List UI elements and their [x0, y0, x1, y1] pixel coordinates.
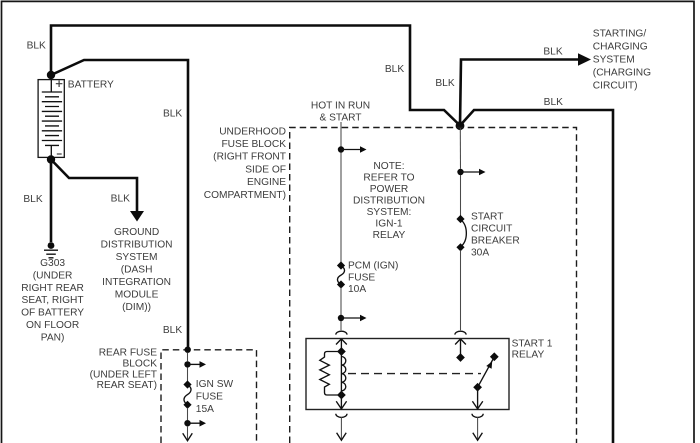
svg-text:IGN SW: IGN SW: [196, 379, 234, 390]
svg-text:INTEGRATION: INTEGRATION: [102, 277, 171, 288]
svg-text:SEAT, RIGHT: SEAT, RIGHT: [22, 295, 84, 306]
svg-text:RELAY: RELAY: [512, 350, 545, 361]
svg-text:REAR FUSE: REAR FUSE: [99, 347, 158, 358]
svg-text:(UNDER: (UNDER: [33, 270, 73, 281]
svg-text:SYSTEM: SYSTEM: [116, 252, 158, 263]
svg-text:RELAY: RELAY: [373, 230, 406, 241]
svg-text:G303: G303: [40, 258, 65, 269]
svg-text:UNDERHOOD: UNDERHOOD: [219, 126, 286, 137]
svg-text:IGN-1: IGN-1: [375, 219, 403, 230]
svg-text:GROUND: GROUND: [114, 227, 159, 238]
svg-text:SYSTEM: SYSTEM: [593, 54, 635, 65]
svg-text:FUSE: FUSE: [196, 391, 223, 402]
svg-text:(DIM)): (DIM)): [122, 302, 151, 313]
svg-text:ENGINE: ENGINE: [247, 177, 286, 188]
svg-text:DISTRIBUTION: DISTRIBUTION: [353, 195, 425, 206]
svg-text:CIRCUIT: CIRCUIT: [471, 223, 512, 234]
svg-text:MODULE: MODULE: [115, 290, 159, 301]
svg-text:BLK: BLK: [111, 194, 130, 205]
svg-text:COMPARTMENT): COMPARTMENT): [204, 190, 286, 201]
svg-text:BREAKER: BREAKER: [471, 235, 520, 246]
svg-text:HOT IN RUN: HOT IN RUN: [311, 100, 370, 111]
svg-text:SYSTEM:: SYSTEM:: [367, 207, 412, 218]
svg-text:PCM (IGN): PCM (IGN): [348, 260, 398, 271]
svg-text:STARTING/: STARTING/: [593, 28, 647, 39]
svg-text:10A: 10A: [348, 284, 366, 295]
svg-text:BLK: BLK: [163, 109, 182, 120]
svg-text:CHARGING: CHARGING: [593, 41, 648, 52]
svg-text:FUSE BLOCK: FUSE BLOCK: [221, 139, 286, 150]
svg-text:(UNDER LEFT: (UNDER LEFT: [90, 369, 157, 380]
svg-text:NOTE:: NOTE:: [373, 161, 404, 172]
svg-text:15A: 15A: [196, 404, 214, 415]
svg-text:PAN): PAN): [41, 333, 65, 344]
svg-text:BLOCK: BLOCK: [122, 358, 157, 369]
svg-text:BLK: BLK: [385, 64, 404, 75]
svg-text:ON FLOOR: ON FLOOR: [26, 320, 79, 331]
svg-text:& START: & START: [319, 112, 361, 123]
svg-text:RIGHT REAR: RIGHT REAR: [21, 283, 84, 294]
svg-text:BLK: BLK: [543, 47, 562, 58]
svg-text:(DASH: (DASH: [121, 264, 153, 275]
svg-text:BLK: BLK: [27, 41, 46, 52]
svg-text:BATTERY: BATTERY: [68, 80, 114, 91]
svg-text:DISTRIBUTION: DISTRIBUTION: [101, 239, 173, 250]
svg-text:OF BATTERY: OF BATTERY: [21, 308, 84, 319]
svg-text:BLK: BLK: [435, 78, 454, 89]
svg-text:(CHARGING: (CHARGING: [593, 67, 651, 78]
svg-text:POWER: POWER: [370, 184, 409, 195]
svg-text:BLK: BLK: [544, 97, 563, 108]
svg-text:BLK: BLK: [163, 325, 182, 336]
svg-text:FUSE: FUSE: [348, 272, 375, 283]
svg-text:(RIGHT FRONT: (RIGHT FRONT: [213, 152, 286, 163]
svg-text:START: START: [471, 211, 503, 222]
svg-text:SIDE OF: SIDE OF: [245, 164, 286, 175]
svg-text:START 1: START 1: [512, 338, 553, 349]
svg-text:BLK: BLK: [23, 194, 42, 205]
svg-text:REAR SEAT): REAR SEAT): [97, 380, 157, 391]
svg-text:30A: 30A: [471, 247, 489, 258]
svg-text:REFER TO: REFER TO: [363, 172, 414, 183]
svg-text:CIRCUIT): CIRCUIT): [593, 80, 638, 91]
